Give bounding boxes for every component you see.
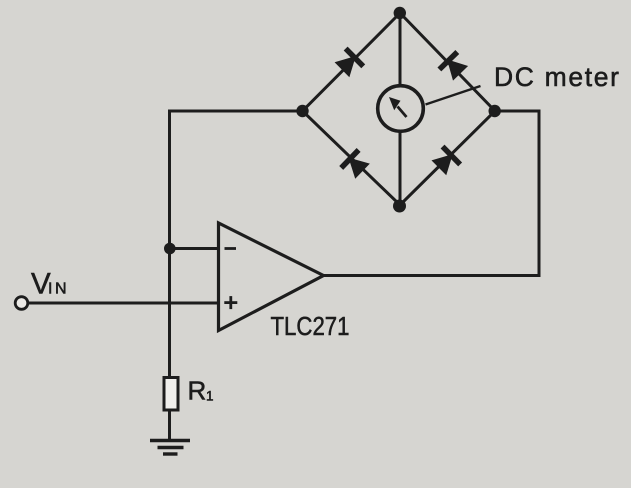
svg-text:IN: IN: [48, 281, 67, 298]
svg-text:1: 1: [206, 389, 214, 404]
svg-text:DC meter: DC meter: [494, 62, 619, 92]
svg-text:R: R: [188, 376, 207, 406]
svg-text:TLC271: TLC271: [271, 313, 350, 341]
